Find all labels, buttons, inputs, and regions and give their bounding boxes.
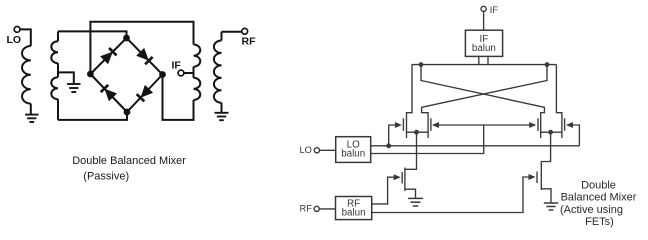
Q6 source wire to ground <box>541 189 551 203</box>
wire secondary top to RF terminal <box>222 31 242 33</box>
IF transformer secondary winding <box>221 32 223 41</box>
source join wire right pair <box>541 131 562 133</box>
LO terminal (active circuit) <box>314 148 319 153</box>
wire left pair source down to Q5 drain <box>405 132 417 169</box>
svg-text:(Active using: (Active using <box>560 204 623 216</box>
svg-text:Double Balanced Mixer: Double Balanced Mixer <box>72 155 186 167</box>
IF transformer primary winding (bottom half) <box>194 78 201 100</box>
transistor Q1 (quad upper-left FET) channel and gate <box>406 112 408 138</box>
ground (Q5 source) <box>408 197 423 199</box>
center tap wire to ground <box>58 72 74 83</box>
Q4 drain wire from rail <box>556 65 562 113</box>
diode D1 (left to top) <box>100 52 113 65</box>
wire up to Q1 gate <box>389 125 401 146</box>
transistor Q2 (quad, left pair inner FET) channel and gate <box>427 112 429 138</box>
RF terminal (left circuit) <box>242 28 248 34</box>
junction dot left pair source <box>414 130 419 135</box>
ground (IF transformer secondary) <box>215 112 229 114</box>
wire secondary top to diamond top node <box>58 31 127 38</box>
cross wire from right dot to Q2 drain <box>422 65 547 113</box>
svg-text:Double: Double <box>581 179 616 191</box>
RF terminal (active circuit) <box>314 206 319 211</box>
IF balun box <box>465 30 502 56</box>
node left of diode ring <box>87 71 94 78</box>
LO transformer secondary winding (top half) <box>57 31 59 41</box>
diode D2 (top to right) <box>136 48 149 61</box>
junction dot right pair source <box>548 130 553 135</box>
IF terminal (active circuit) <box>481 6 486 11</box>
LO balun lower output wire (to inner gates) <box>370 125 484 154</box>
transistor Q6 (lower-right FET) channel and gate <box>540 167 542 191</box>
cross wire from left dot to Q3 drain <box>421 65 544 113</box>
node right of diode ring <box>159 71 166 78</box>
diode D4 (bottom to left) <box>104 89 117 102</box>
svg-text:Balanced Mixer: Balanced Mixer <box>561 192 637 204</box>
node bottom of diode ring <box>124 109 131 116</box>
wire RF terminal to RF balun <box>319 208 335 210</box>
Q1 drain wire from rail <box>407 65 413 113</box>
LO balun upper output wire (to outer gates) <box>370 145 579 147</box>
svg-text:IF: IF <box>490 5 499 15</box>
svg-text:balun: balun <box>342 207 366 218</box>
wire secondary bottom to diamond bottom node <box>58 112 127 120</box>
ground (Q6 source) <box>544 202 558 204</box>
junction dot right on top rail <box>545 62 550 67</box>
LO transformer secondary winding (bottom half) <box>51 77 58 99</box>
node top of diode ring <box>123 35 130 42</box>
svg-text:(Passive): (Passive) <box>83 170 129 182</box>
diode D3 (right to bottom) <box>141 85 154 98</box>
top rail <box>412 64 557 66</box>
svg-text:LO: LO <box>300 145 312 155</box>
IF output terminal (left circuit) <box>178 70 184 76</box>
wire diamond left node up to top rail <box>90 22 193 74</box>
transistor Q4 (quad upper-right FET) channel and gate <box>561 112 563 138</box>
ground (LO primary) <box>25 114 38 116</box>
wire right end up to Q4 gate <box>567 125 579 146</box>
RF balun box <box>336 197 372 220</box>
svg-text:IF: IF <box>172 59 182 71</box>
RF balun upper output to Q5 gate <box>372 177 400 204</box>
wire IF terminal to IF balun <box>483 12 485 31</box>
diode ring edge wires <box>90 38 126 74</box>
RF balun lower output to Q6 gate <box>372 177 535 213</box>
svg-text:balun: balun <box>341 148 365 159</box>
wire primary to ground <box>30 104 32 114</box>
wire right pair source down to Q6 drain <box>541 132 550 167</box>
svg-text:FETs): FETs) <box>585 216 614 228</box>
transistor Q3 (quad, right pair inner FET) channel and gate <box>540 112 542 138</box>
transistor Q5 (lower-left FET) channel and gate <box>404 168 406 192</box>
IF transformer primary center section <box>193 67 195 78</box>
wire LO terminal to primary coil <box>20 29 31 46</box>
svg-text:RF: RF <box>300 203 313 213</box>
svg-text:balun: balun <box>472 43 496 54</box>
IF transformer primary winding (top half) <box>194 45 201 67</box>
junction dot left on top rail <box>419 62 424 67</box>
wire IF terminal to transformer center tap <box>184 72 194 74</box>
source join wire left pair <box>407 131 429 133</box>
LO transformer secondary center section <box>57 63 59 77</box>
IF balun output stubs <box>478 56 480 65</box>
junction dot on LO upper output <box>386 143 391 148</box>
wire diamond right node down to bottom-right rail <box>163 75 194 120</box>
wire LO terminal to LO balun <box>320 149 336 151</box>
LO input terminal (left circuit) <box>14 27 20 33</box>
Q5 source wire to ground <box>405 189 416 198</box>
LO transformer primary winding <box>22 46 31 104</box>
ground (secondary center tap) <box>67 83 80 85</box>
svg-text:RF: RF <box>242 36 257 48</box>
inner-gates wire with arrows both ends <box>433 124 535 126</box>
LO balun box <box>336 137 371 163</box>
svg-text:LO: LO <box>7 34 22 46</box>
